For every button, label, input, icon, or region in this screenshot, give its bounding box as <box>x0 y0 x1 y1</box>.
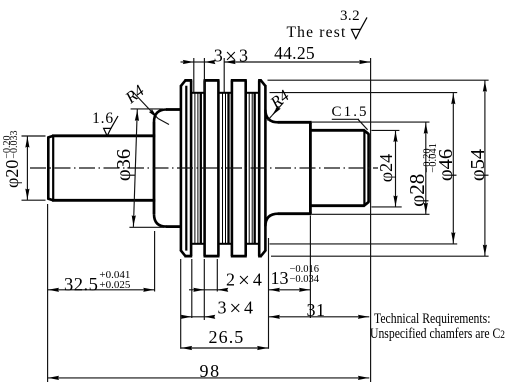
dim line 3x3 span <box>194 61 205 63</box>
dim line 44.25 <box>224 61 370 63</box>
step face phi28 to phi24 <box>309 122 312 213</box>
arrow phi46 up <box>451 93 455 104</box>
label 3.2 <box>336 8 364 25</box>
hub chamfer slant top-left <box>180 80 185 86</box>
hub rim top segment flange1 <box>184 79 192 82</box>
label 3x3 <box>213 44 251 69</box>
groove1 inner wall <box>200 93 202 244</box>
hub left chamfer edge line <box>185 86 187 251</box>
arrow 2x4 right outside <box>217 288 228 292</box>
dim line phi20 <box>26 136 28 200</box>
dim line phi36 <box>133 109 137 227</box>
label The rest <box>287 24 357 42</box>
groove2 root line b <box>225 93 227 244</box>
leader C1.5 underline <box>332 118 359 120</box>
ext line phi24 top <box>372 129 400 131</box>
fillet R4 step bottom <box>154 214 167 227</box>
leader R4 right <box>272 103 284 116</box>
groove1 ledge bottom <box>191 243 205 245</box>
label 98 <box>200 361 228 382</box>
roughness symbol the rest top-right <box>351 17 367 38</box>
arrow 3x3 left outside <box>183 60 194 64</box>
phi20 top edge <box>52 134 155 137</box>
phi28 bottom edge <box>278 212 312 215</box>
arrow 32.5 right <box>143 288 154 292</box>
dim line 98 <box>48 377 370 379</box>
ext line land right column <box>216 259 218 292</box>
leader C1.5 slant <box>358 119 368 130</box>
technical requirements line1 <box>374 311 490 328</box>
arrow R4 left leader <box>149 109 160 120</box>
dim line 32.5 <box>48 289 155 291</box>
arrow phi54 up <box>483 81 487 92</box>
ext line groove1 right column <box>203 259 205 320</box>
label phi54 rotated <box>467 135 487 195</box>
ext line hub left face column <box>180 259 182 349</box>
hub right face <box>264 86 267 251</box>
arrow 32.5 left <box>48 288 59 292</box>
groove1 left wall full height <box>190 80 193 256</box>
groove3 left wall full height <box>244 80 247 256</box>
chamfer slant top-left <box>48 136 54 138</box>
arrow 98 left <box>48 376 59 380</box>
ext line step24 column <box>309 216 311 319</box>
hub rim top segment flange2 <box>204 79 220 82</box>
hub chamfer slant bottom-left <box>180 250 185 256</box>
ext line phi54 bottom <box>271 255 489 257</box>
arrow phi20 up <box>25 137 29 148</box>
arrow phi20 down <box>25 189 29 200</box>
ext line 3x3 right <box>203 58 205 93</box>
ext line phi20 bottom <box>22 199 46 201</box>
phi36 top edge <box>166 108 182 111</box>
ext line phi54 top <box>268 79 489 81</box>
phi20 bottom edge <box>52 199 155 202</box>
label 3x4 <box>218 296 258 321</box>
roughness symbol on phi20 surface <box>104 116 118 136</box>
arrow phi36 down <box>131 215 136 226</box>
ext line phi36 bottom <box>129 226 164 228</box>
ext line 44.25 left <box>223 58 225 93</box>
arrowheads <box>25 60 487 380</box>
leader R4 left <box>133 92 158 119</box>
arrow 31 left <box>269 315 280 319</box>
hub left face <box>180 86 183 251</box>
label phi24 rotated <box>376 138 396 198</box>
arrow 13 right <box>299 288 310 292</box>
dim row top: 3x3 left tail <box>181 61 194 63</box>
hub rim bottom segment flange1 <box>184 255 192 258</box>
label 13 with tolerance <box>271 265 320 289</box>
chamfer edge line right end <box>363 131 365 205</box>
arrow phi24 up <box>393 131 397 142</box>
label phi36 rotated <box>113 135 133 195</box>
arrow 3x4 left outside <box>181 315 192 319</box>
label 2x4 <box>226 268 266 293</box>
chamfer edge line left end <box>52 135 54 201</box>
dim line phi46 <box>452 93 454 244</box>
arrow 31 right <box>358 315 369 319</box>
groove3 inner wall <box>254 93 256 244</box>
label C1.5 <box>332 104 372 121</box>
hub rim top segment flange4 <box>258 79 262 82</box>
label 31 <box>307 300 333 321</box>
label 44.25 <box>272 43 317 64</box>
groove3 root line b <box>251 93 253 244</box>
fillet R4 hub right top <box>265 110 278 123</box>
dim line phi28 <box>425 122 427 214</box>
groove1 ledge top <box>191 92 205 94</box>
groove2 ledge bottom <box>218 243 232 245</box>
arrow 44.25 right <box>359 60 370 64</box>
arrow phi46 down <box>451 232 455 243</box>
arrow phi36 up <box>135 110 140 121</box>
arrow R4 right leader <box>270 106 280 117</box>
arrow 26.5 left <box>181 346 192 350</box>
arrow 3x4 right outside <box>204 315 215 319</box>
dim line phi24 <box>395 131 397 207</box>
phi24 bottom edge <box>310 204 364 207</box>
label R4 right <box>267 81 300 113</box>
label phi28 with tolerance rotated <box>405 139 429 211</box>
arrow 44.25 left <box>225 60 236 64</box>
ext line phi46 bottom <box>270 243 458 245</box>
groove3 root line a <box>248 93 250 244</box>
arrow 3x3 right outside <box>204 60 215 64</box>
hub rim top segment flange3 <box>231 79 247 82</box>
ext line 3x3 left <box>193 58 195 93</box>
groove3 ledge bottom <box>246 243 260 245</box>
ext line groove1 left column <box>191 259 193 318</box>
hub rim bottom segment flange4 <box>258 255 262 258</box>
dim line 31 <box>269 316 370 318</box>
hub rim bottom segment flange3 <box>231 255 247 258</box>
groove1 root line b <box>197 93 199 244</box>
flange4 left edge full height <box>258 80 261 256</box>
arrow 2x4 left outside <box>193 288 204 292</box>
chamfer C1.5 slant top-right <box>364 130 369 134</box>
arrow phi54 down <box>483 245 487 256</box>
dim line 3x4 <box>181 316 215 318</box>
dimension graphics group <box>22 58 489 382</box>
arrow 98 right <box>358 376 369 380</box>
arrow 13 left <box>269 288 280 292</box>
shaft right end face <box>367 134 370 203</box>
ext line phi46 top <box>270 92 458 94</box>
phi36 bottom edge <box>166 225 182 228</box>
arrow phi24 down <box>393 196 397 207</box>
hub chamfer slant top-right <box>261 80 266 86</box>
ext line phi36 top <box>131 108 163 110</box>
groove1 root line a <box>194 93 196 244</box>
ext line step column <box>154 231 156 292</box>
ext line phi20 top <box>22 135 46 137</box>
phi28 top edge <box>278 121 312 124</box>
dim line 13 <box>269 289 311 291</box>
ext line hub right fillet column <box>268 238 270 349</box>
fillet R4 hub right bottom <box>265 214 278 227</box>
label 26.5 <box>209 327 251 348</box>
label phi46 rotated <box>435 135 455 195</box>
flange2 left edge full height <box>203 80 206 256</box>
ext line left face column <box>47 204 49 382</box>
label phi20 with tolerance rotated <box>2 116 28 188</box>
arrow phi28 down <box>424 203 428 214</box>
ext line right face column <box>370 58 372 382</box>
ext line phi28 bottom <box>312 213 430 215</box>
chamfer slant bottom-left <box>48 199 54 201</box>
phi24 top edge <box>310 129 364 132</box>
ext line phi28 top <box>312 121 430 123</box>
groove2 left wall full height <box>217 80 220 256</box>
dim 3x3 right tail <box>204 61 213 63</box>
dim line 2x4 <box>189 289 226 291</box>
arrow phi28 up <box>424 123 428 134</box>
label 1.6 <box>91 110 115 128</box>
dim line phi54 <box>484 80 486 256</box>
flange3 left edge full height <box>231 80 234 256</box>
shaft left end face phi20 <box>47 137 50 200</box>
fillet R4 step top <box>154 110 167 123</box>
hub rim bottom segment flange2 <box>204 255 220 258</box>
label R4 left <box>122 76 155 108</box>
groove3 ledge top <box>246 92 260 94</box>
step face phi20 to phi36 <box>153 122 156 214</box>
technical requirements line2 <box>370 326 505 343</box>
arrow 26.5 right <box>257 346 268 350</box>
label 32.5 with tolerance <box>64 270 130 297</box>
groove2 inner wall <box>227 93 229 244</box>
groove2 ledge top <box>218 92 232 94</box>
ext line phi24 bottom <box>372 206 402 208</box>
center line axis <box>30 167 378 169</box>
chamfer C1.5 slant bottom-right <box>364 202 369 206</box>
dim line 26.5 <box>181 347 269 349</box>
groove2 root line a <box>222 93 224 244</box>
hub chamfer slant bottom-right <box>261 250 266 256</box>
